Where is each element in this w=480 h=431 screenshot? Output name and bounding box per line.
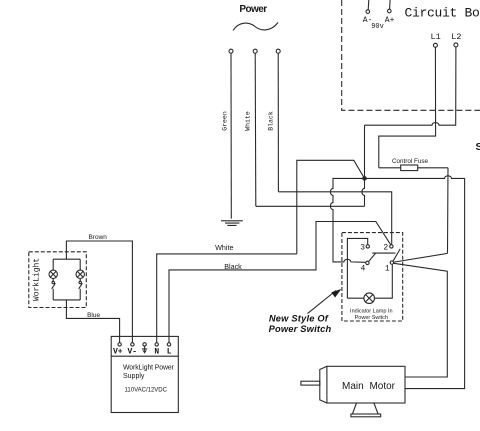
annotation arrow [308,291,337,314]
svg-text:3: 3 [360,244,365,253]
svg-text:Indicator Lamp In: Indicator Lamp In [350,309,393,315]
switch pin 2 [390,245,393,248]
svg-text:New Style Of: New Style Of [269,313,329,323]
wire junction to motor right vertical (neutral), hop over fuse wire [365,176,465,389]
wire fuse input horizontal [379,167,448,169]
svg-text:Supply: Supply [123,373,145,380]
lamp L2 (worklight right) [76,270,84,278]
wire A+ [389,0,392,9]
wire lamp right lead to pin1 [375,265,393,299]
power terminal green [229,49,233,53]
wire junction diagonal to neutral distribution [297,160,365,254]
svg-text:90v: 90v [371,23,384,31]
wire lamp2 top lead [79,259,81,270]
power terminal white [253,49,257,53]
svg-text:Power Switch: Power Switch [355,315,388,321]
wire L2 down, hop over L1, to junction [365,47,456,125]
wire black horizontal to switch pin2 [278,192,391,245]
wire junction down to white horizontal, hop over black [362,178,365,206]
power terminal black [276,49,280,53]
terminal ground [143,343,146,346]
svg-text:L: L [167,347,172,356]
wire worklight bottom bus [53,299,80,301]
svg-text:110VAC/12VDC: 110VAC/12VDC [125,388,168,394]
svg-text:Black: Black [224,262,242,271]
svg-text:Main Motor: Main Motor [342,381,396,392]
motor base plate [351,414,381,417]
svg-text:Blue: Blue [87,312,100,319]
terminal A- [366,10,370,14]
power switch dashed box [342,233,403,321]
wire fuse to switch pin1 diagonal [394,253,448,262]
switch pin 4 [366,261,369,264]
motor end cap [320,366,327,403]
svg-text:Power: Power [239,4,267,15]
wire black vertical [277,53,279,192]
fuse body [401,165,418,171]
svg-text:White: White [245,111,252,131]
terminal L2 [454,43,458,47]
AC sine symbol [233,23,278,31]
switch lever pin4 [369,253,376,261]
wire brown from worklight to V- [66,241,132,343]
svg-text:WorkLight: WorkLight [33,258,42,301]
switch pin 1 [390,261,393,264]
svg-text:Control Fuse: Control Fuse [392,158,429,165]
terminal V- [131,343,134,346]
wire white horizontal to junction [256,205,365,207]
terminal L [167,343,170,346]
ground arrow glyph [142,346,147,350]
wire A- [367,0,370,10]
svg-text:S: S [476,141,480,153]
wire lamp left lead [347,297,364,299]
wire L1 down and to fuse [379,47,436,168]
svg-text:2: 2 [383,244,388,253]
switch pin 3 [366,245,369,248]
ground (green wire) [221,221,243,226]
svg-text:Power Switch: Power Switch [269,324,332,334]
motor base trapezoid [352,403,378,414]
svg-text:L1: L1 [430,32,440,42]
svg-text:Circuit Board: Circuit Board [405,5,480,20]
svg-text:N: N [154,347,159,356]
svg-text:V-: V- [127,347,137,356]
svg-text:Brown: Brown [88,234,107,241]
svg-text:WorkLight Power: WorkLight Power [123,365,175,372]
switch link bar [372,252,395,254]
svg-text:L2: L2 [451,32,461,42]
svg-text:White: White [215,243,233,252]
power supply box [111,336,178,412]
wire junction feed vertical [364,125,366,178]
terminal L1 [433,43,437,47]
wire lamp1 top lead [52,259,54,270]
indicator lamp [364,293,375,304]
svg-text:Green: Green [222,111,229,131]
wire black (supply) from L terminal to pin2 [169,222,391,343]
wire pin1 to motor vertical [394,263,448,377]
svg-text:A+: A+ [385,16,395,25]
lamp L1 (worklight left) [49,270,57,278]
terminal V+ [118,343,121,346]
svg-text:V+: V+ [113,347,123,356]
wire green vertical [230,53,232,218]
circuit board dashed border [342,0,480,110]
svg-text:1: 1 [385,265,390,274]
svg-text:Black: Black [268,111,275,131]
svg-text:4: 4 [360,265,365,274]
wire worklight top bus [53,258,80,260]
wire white (supply) horizontal [157,254,297,343]
node junction [362,176,367,181]
switch lever pin1 [393,249,400,261]
wire fuse output down [447,168,450,254]
switch under lamp2 [79,279,81,282]
motor shaft [301,381,320,385]
main motor body [327,366,405,403]
terminal N [155,343,158,346]
wire pin3 to lamp [347,238,367,298]
switch under lamp1 [52,279,54,282]
worklight dashed box [29,252,87,308]
wire junction left then down to switch pin4, hops over black and white [330,178,365,262]
terminal A+ [388,9,392,13]
wire blue from worklight to V+ [66,300,119,343]
wire white vertical [254,53,257,206]
